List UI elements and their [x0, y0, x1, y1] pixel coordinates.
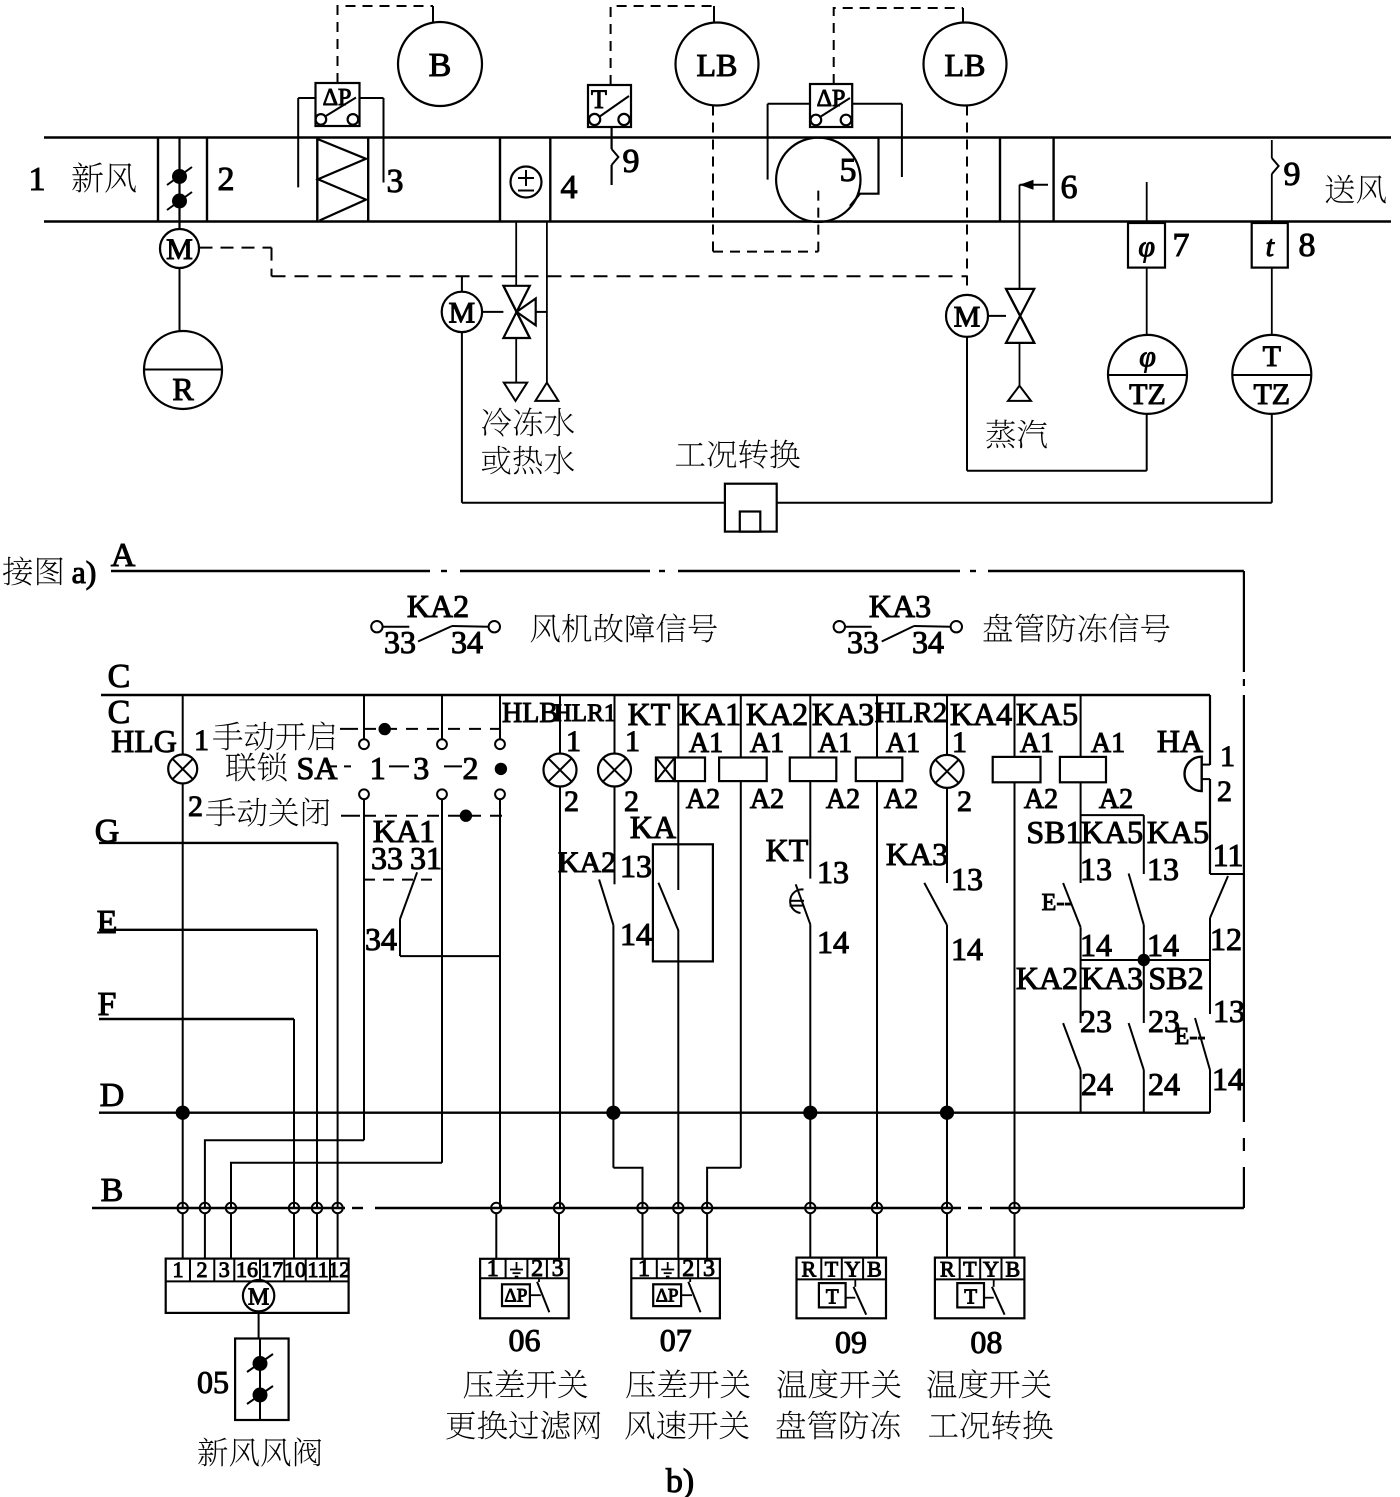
dashed link LB1 to fan [712, 106, 714, 252]
svg-text:1: 1 [194, 724, 209, 757]
svg-text:A2: A2 [1024, 784, 1058, 815]
bus A dash-dot line [111, 570, 430, 572]
wires bus B into 07 block [642, 1213, 644, 1259]
steam valve body [1006, 289, 1034, 343]
svg-text:23: 23 [1080, 1003, 1112, 1039]
wire KT contact to bus D [809, 924, 811, 1208]
svg-text:B: B [101, 1172, 124, 1209]
svg-text:KA2: KA2 [1016, 960, 1078, 996]
temperature sensor 8 box [1271, 174, 1273, 223]
dashed link dP1 to bell B [338, 6, 434, 83]
svg-text:TZ: TZ [1129, 378, 1166, 411]
section separator left of damper [157, 138, 159, 222]
relay KA box around contact [653, 844, 713, 961]
svg-text:3: 3 [413, 750, 429, 786]
svg-text:33: 33 [371, 840, 403, 876]
bus B line segments [92, 1207, 345, 1209]
three way valve body [503, 286, 535, 338]
dP switch 1 box [316, 83, 360, 126]
controller R circle [144, 331, 222, 409]
jog KA1 column to 07 terminal 3 [707, 1168, 741, 1208]
svg-text:8: 8 [1299, 227, 1316, 264]
pressure switch 06 block [480, 1259, 569, 1319]
caption temperature switch 08 [927, 1369, 1050, 1398]
svg-text:φ: φ [1139, 340, 1156, 373]
svg-text:KA3: KA3 [1081, 960, 1143, 996]
svg-text:LB: LB [945, 47, 986, 83]
bus D line [99, 1111, 1210, 1113]
bus F line [99, 1018, 294, 1020]
filter 03 zigzag [316, 138, 318, 222]
svg-text:Y: Y [983, 1257, 999, 1282]
relay coil KA4 box [993, 757, 1041, 782]
svg-text:3: 3 [219, 1257, 230, 1282]
dashed link dP2 to LB2 [834, 8, 963, 84]
bus C right rail down [1209, 695, 1211, 765]
svg-text:T: T [963, 1257, 977, 1282]
air flow switch 9 under T box [610, 127, 612, 149]
svg-text:G: G [95, 813, 120, 850]
timer coil KT box with X [656, 758, 675, 782]
svg-text:HA: HA [1157, 723, 1203, 759]
svg-text:a): a) [72, 554, 97, 590]
temperature switch 09 block [797, 1258, 887, 1319]
chilled water valve motor M [461, 276, 463, 291]
svg-text:A2: A2 [750, 784, 784, 815]
svg-text:A1: A1 [689, 728, 723, 759]
wire KA contact down to bus B [677, 930, 679, 1208]
svg-text:A1: A1 [1091, 728, 1125, 759]
svg-text:Y: Y [845, 1257, 861, 1282]
selector switch SA column 2 from bus C [441, 695, 443, 739]
branch wire KA5 contact [1143, 815, 1145, 874]
svg-text:31: 31 [410, 840, 442, 876]
svg-text:M: M [166, 233, 193, 266]
svg-text:D: D [100, 1077, 125, 1114]
svg-text:A2: A2 [1099, 784, 1133, 815]
svg-text:ΔP: ΔP [323, 85, 352, 111]
svg-text:A: A [111, 537, 136, 574]
svg-text:T: T [825, 1257, 839, 1282]
lamp HLG column wire [182, 695, 184, 755]
svg-text:5: 5 [840, 152, 857, 189]
svg-text:10: 10 [284, 1257, 306, 1282]
wire KT coil down [677, 781, 679, 890]
SA manual open dashed row with dot [364, 728, 500, 730]
jog HLR1 column to 07 terminal 1 [613, 1168, 642, 1208]
svg-text:13: 13 [951, 861, 983, 897]
svg-text:R: R [802, 1257, 817, 1282]
wires bus B into 06 block [495, 1213, 497, 1259]
svg-text:3: 3 [387, 163, 404, 200]
svg-text:KA5: KA5 [1147, 814, 1209, 850]
label mode switch [676, 440, 800, 469]
svg-text:M: M [954, 301, 981, 334]
relay coil KA3 column wire [876, 695, 878, 758]
svg-text:1: 1 [29, 161, 46, 198]
svg-text:12: 12 [328, 1257, 350, 1282]
svg-text:24: 24 [1081, 1066, 1113, 1102]
svg-text:KA1: KA1 [679, 696, 741, 732]
wires bus B into 08 block [946, 1213, 948, 1258]
wire steam motor to humidity transmitter [966, 337, 968, 471]
humidity sensor 7 box [1146, 182, 1148, 223]
svg-text:1: 1 [370, 750, 386, 786]
relay coil KA5 column wire [1080, 695, 1082, 757]
label chilled or hot water [482, 408, 574, 437]
right boundary dash-dot to diagram a [1243, 571, 1245, 672]
chilled water supply pipe [515, 222, 517, 286]
caption pressure switch 07 [626, 1370, 750, 1399]
SA column1 wire down [363, 799, 365, 1140]
svg-text:φ: φ [1138, 230, 1155, 263]
svg-text:KA: KA [630, 809, 676, 845]
svg-text:1: 1 [487, 1256, 499, 1282]
svg-text:14: 14 [951, 931, 983, 967]
svg-text:1: 1 [566, 725, 581, 758]
svg-text:13: 13 [817, 854, 849, 890]
humidity transmitter TZ circle [1108, 335, 1187, 414]
relay coil KA2 box [790, 758, 837, 782]
svg-text:14: 14 [817, 924, 849, 960]
svg-text:KA3: KA3 [812, 696, 874, 732]
svg-text:HLR2: HLR2 [875, 697, 948, 729]
svg-text:09: 09 [835, 1324, 867, 1360]
lamp LB2 circle [924, 23, 1007, 106]
SA column3 wire down [499, 799, 501, 1208]
svg-text:13: 13 [1147, 851, 1179, 887]
svg-text:2: 2 [188, 790, 203, 823]
lamp HLR1 [598, 754, 631, 787]
label songfeng supply air [1326, 175, 1386, 204]
svg-text:2: 2 [682, 1256, 694, 1282]
svg-text:3: 3 [552, 1256, 564, 1282]
svg-text:KA2: KA2 [558, 846, 616, 879]
duct bottom wall [44, 220, 1391, 223]
svg-text:34: 34 [365, 921, 397, 957]
terminal strip outer box [166, 1259, 349, 1313]
svg-text:KA2: KA2 [746, 696, 808, 732]
dP switch 2 box [810, 84, 852, 127]
svg-text:14: 14 [1147, 927, 1179, 963]
svg-text:16: 16 [236, 1257, 258, 1282]
svg-text:6: 6 [1061, 169, 1078, 206]
wire M to damper 05 [258, 1311, 260, 1338]
dashed control line from damper motor [200, 247, 272, 249]
svg-text:05: 05 [197, 1364, 229, 1400]
svg-text:B: B [867, 1257, 882, 1282]
label zhengqi steam [986, 420, 1047, 449]
svg-text:HLG: HLG [111, 723, 177, 759]
svg-text:T: T [1263, 340, 1281, 373]
wire HLR2 lamp down [946, 788, 948, 883]
section separator right of damper [206, 138, 208, 222]
svg-text:2: 2 [463, 750, 479, 786]
svg-text:A1: A1 [886, 728, 920, 759]
svg-text:ΔP: ΔP [656, 1286, 679, 1307]
svg-text:9: 9 [1284, 156, 1301, 193]
svg-text:KA5: KA5 [1081, 814, 1143, 850]
relay coil KA1 column wire [740, 695, 742, 758]
svg-text:SA: SA [297, 750, 338, 786]
lamp HLB [544, 754, 577, 787]
svg-text:M: M [449, 297, 476, 330]
svg-text:TZ: TZ [1253, 378, 1290, 411]
wire HLG lamp down to bus D [182, 784, 184, 1209]
svg-text:13: 13 [1213, 993, 1245, 1029]
svg-text:SB1: SB1 [1026, 814, 1081, 850]
svg-text:T: T [591, 85, 607, 114]
wire KA5 coil down and parallel branch top [1080, 782, 1082, 883]
bus E wire down to terminal 11 [316, 930, 318, 1208]
svg-text:14: 14 [1212, 1061, 1244, 1097]
bell B circle [398, 22, 482, 106]
svg-text:A1: A1 [818, 728, 852, 759]
svg-text:R: R [172, 371, 194, 407]
svg-text:KT: KT [766, 832, 809, 868]
svg-text:M: M [248, 1285, 269, 1311]
svg-text:11: 11 [1213, 837, 1244, 873]
steam open triangle [1008, 386, 1031, 401]
label manual open row [213, 721, 335, 750]
wire HLB lamp to bus B [559, 787, 561, 1209]
svg-text:SB2: SB2 [1148, 960, 1203, 996]
label coil freeze signal [983, 613, 1169, 642]
T switch box above duct [588, 85, 631, 127]
svg-text:2: 2 [197, 1257, 208, 1282]
svg-text:13: 13 [1080, 851, 1112, 887]
svg-text:HLB: HLB [502, 698, 558, 729]
svg-text:9: 9 [623, 143, 640, 180]
svg-text:14: 14 [620, 916, 652, 952]
timer coil KT column wire [677, 695, 679, 758]
svg-text:KA3: KA3 [886, 836, 948, 872]
svg-text:B: B [429, 47, 452, 84]
svg-text:T: T [964, 1285, 977, 1309]
contact KA5 13-14 blade [1129, 874, 1144, 925]
svg-text:A2: A2 [826, 784, 860, 815]
water supply open triangle [535, 383, 558, 401]
label fan fault signal [531, 613, 717, 642]
svg-text:KA5: KA5 [1016, 696, 1078, 732]
svg-text:07: 07 [660, 1322, 692, 1358]
lamp HLR1 column wire [614, 695, 616, 754]
svg-text:24: 24 [1148, 1066, 1180, 1102]
lamp HLR2 column wire [946, 695, 948, 755]
svg-text:11: 11 [307, 1257, 328, 1282]
humidity sensor line to transmitter [1146, 268, 1148, 335]
wire KA4 coil down to bus B [1014, 782, 1016, 1208]
svg-text:B: B [1006, 1257, 1021, 1282]
svg-text:13: 13 [620, 848, 652, 884]
svg-text:12: 12 [1210, 921, 1242, 957]
svg-text:A1: A1 [1020, 728, 1054, 759]
temperature switch 08 block [935, 1258, 1025, 1319]
svg-text:33: 33 [847, 624, 879, 660]
fresh air damper 05 box [235, 1339, 289, 1421]
svg-text:KA3: KA3 [869, 588, 931, 624]
selector switch SA column 3 from bus C [499, 695, 501, 739]
wire M to R controller [179, 268, 181, 331]
bus G line [99, 842, 338, 844]
wires bus B into terminal strip [182, 1213, 184, 1259]
wire water motor to mode box and temp transmitter [461, 332, 463, 503]
svg-text:F: F [98, 986, 117, 1023]
svg-text:06: 06 [509, 1322, 541, 1358]
svg-text:17: 17 [261, 1257, 283, 1282]
dP switch 1 sampling legs [297, 98, 299, 187]
temperature transmitter TZ circle [1232, 335, 1311, 414]
svg-text:t: t [1266, 230, 1275, 263]
svg-text:2: 2 [218, 161, 235, 198]
temperature sensor line to transmitter [1271, 268, 1273, 335]
pressure switch 07 block [631, 1259, 720, 1319]
svg-text:ΔP: ΔP [817, 86, 846, 112]
svg-text:LB: LB [697, 47, 738, 83]
SA bottom contact circles [359, 789, 369, 799]
pressure equalize symbol circle in section 4 [499, 138, 501, 222]
KT delay contact blade with arc [796, 884, 811, 924]
svg-text:2: 2 [957, 785, 972, 818]
bus F wire down to terminal 10 [293, 1019, 295, 1208]
relay coil KA2 column wire [809, 695, 811, 758]
water return open triangle [504, 383, 527, 401]
steam pipe [1019, 185, 1021, 289]
steam valve motor M [946, 295, 988, 337]
svg-text:R: R [940, 1257, 955, 1282]
KA1 contact blade [400, 872, 417, 919]
SA column2 wire down [441, 799, 443, 1163]
svg-text:KT: KT [628, 696, 671, 732]
svg-text:2: 2 [531, 1256, 543, 1282]
jog SA column2 to terminal 3 [231, 1163, 442, 1208]
svg-text:A1: A1 [750, 728, 784, 759]
relay contact KA2 33-34 fault signal [371, 621, 382, 632]
junction wire 14 row [1081, 959, 1210, 961]
air switch 9 right side [1271, 140, 1273, 158]
svg-text:33: 33 [384, 624, 416, 660]
lamp LB1 circle [676, 23, 759, 106]
relay contact KA3 33-34 freeze signal [834, 621, 845, 632]
dashed link LB2 to steam valve motor [966, 106, 968, 293]
svg-text:A2: A2 [884, 784, 918, 815]
svg-text:34: 34 [451, 624, 483, 660]
bus E line [99, 929, 317, 931]
damper 02 blades in duct [178, 138, 180, 230]
svg-text:E: E [97, 904, 118, 941]
bus D junction dots [176, 1106, 190, 1120]
wire KA2 contact to bus D junction [612, 925, 614, 1168]
dashed link T switch to LB1 [611, 6, 714, 85]
main dashed control bus [272, 275, 968, 277]
svg-text:1: 1 [1220, 740, 1235, 773]
section 6 separators [999, 138, 1001, 222]
SA top contact circles [359, 739, 369, 749]
jog SA column1 to terminal 2 [205, 1140, 364, 1208]
svg-text:T: T [826, 1285, 839, 1309]
svg-text:KA4: KA4 [950, 696, 1012, 732]
lamp HLB column wire [559, 695, 561, 754]
wire KA3 contact to bus D junction [946, 925, 948, 1208]
caption temperature switch 09 [777, 1369, 900, 1398]
relay coil KA3 box [856, 758, 903, 782]
terminal strip actuator M [243, 1280, 274, 1311]
svg-text:ΔP: ΔP [505, 1286, 528, 1307]
svg-text:C: C [108, 658, 131, 695]
bus G wire down to terminal 12 [337, 843, 339, 1208]
label fresh air damper [198, 1438, 321, 1467]
svg-text:2: 2 [1217, 775, 1232, 808]
wires bus B into 09 block [809, 1213, 811, 1258]
duct top wall [44, 136, 1391, 139]
lamp HLR2 [931, 755, 964, 788]
wire HLR1 lamp down [614, 787, 616, 885]
svg-text:7: 7 [1173, 227, 1190, 264]
svg-text:1: 1 [638, 1256, 650, 1282]
svg-text:2: 2 [564, 785, 579, 818]
svg-text:34: 34 [912, 624, 944, 660]
label to-diagram-a [3, 557, 63, 586]
svg-text:14: 14 [1080, 927, 1112, 963]
SA manual close dashed row with dot [364, 815, 506, 817]
label xinfeng fresh air [72, 162, 135, 192]
supply fan 05 scroll [776, 138, 860, 222]
relay coil KA1 box [719, 758, 767, 782]
svg-text:HLR1: HLR1 [554, 700, 617, 727]
mode switch box gongkuang [725, 484, 777, 532]
svg-text:08: 08 [970, 1324, 1002, 1360]
relay coil KA4 column wire [1014, 695, 1016, 757]
wire KA2 coil down [809, 781, 811, 879]
relay coil KA5 box [1060, 757, 1106, 782]
dP switch 2 sampling legs [767, 104, 769, 180]
bus B terminal circles [178, 1203, 188, 1213]
selector switch SA column 1 from bus C [363, 695, 365, 739]
svg-text:KA2: KA2 [407, 588, 469, 624]
lamp HLG [168, 755, 197, 784]
wire KA1 coil down [740, 781, 742, 1168]
damper actuator motor M [160, 229, 199, 268]
svg-text:1: 1 [173, 1257, 184, 1282]
svg-text:4: 4 [561, 169, 578, 206]
steam humidifier arrow in section 6 [1020, 184, 1049, 186]
water supply pipe right [546, 222, 548, 383]
KA contact blade [658, 883, 678, 931]
svg-text:3: 3 [703, 1256, 715, 1282]
svg-text:b): b) [666, 1463, 694, 1497]
relay contact KA1 33-34 dashed tie [364, 879, 440, 881]
KA1 contact bottom wire to SA column3 [399, 919, 401, 956]
wire KA3 coil down to bus B [876, 781, 878, 1208]
caption pressure switch 06 [464, 1370, 588, 1399]
bus C line [101, 694, 1210, 697]
contact KA5 11-12 blade [1210, 876, 1228, 918]
wire rail to terminal 11 [1210, 873, 1244, 875]
svg-text:A2: A2 [686, 784, 720, 815]
damper 05 blades [259, 1339, 261, 1421]
label manual close row [206, 798, 329, 827]
label interlock SA row [226, 752, 287, 781]
